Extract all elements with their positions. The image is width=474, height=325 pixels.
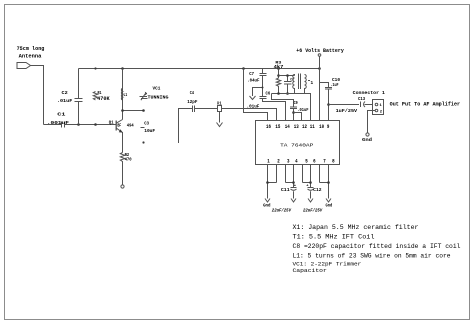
- svg-text:4: 4: [295, 159, 298, 165]
- svg-text:.01uF: .01uF: [297, 108, 308, 113]
- svg-text:6: 6: [313, 159, 316, 165]
- svg-text:C4: C4: [190, 90, 194, 96]
- svg-text:.01uF: .01uF: [247, 103, 260, 109]
- svg-text:C2: C2: [62, 90, 68, 96]
- svg-text:14: 14: [285, 124, 290, 130]
- svg-text:.01uF: .01uF: [57, 98, 73, 104]
- svg-text:C6: C6: [266, 91, 271, 96]
- svg-text:X1: X1: [217, 102, 222, 107]
- svg-text:L1: 5 turns of 23 SWG wire on: L1: 5 turns of 23 SWG wire on 5mm air co…: [293, 253, 451, 260]
- svg-text:C8 =220pF capacitor fitted ins: C8 =220pF capacitor fitted inside a IFT …: [293, 243, 461, 250]
- svg-text:C12: C12: [313, 188, 322, 193]
- svg-text:Antenna: Antenna: [19, 54, 42, 60]
- svg-text:16: 16: [266, 124, 271, 130]
- svg-text:Gnd: Gnd: [362, 137, 372, 143]
- svg-text:L1: L1: [124, 93, 128, 98]
- svg-text:C1: C1: [57, 112, 65, 118]
- svg-text:Capacitor: Capacitor: [293, 268, 327, 274]
- svg-text:13: 13: [294, 124, 299, 130]
- svg-text:C7: C7: [249, 72, 254, 77]
- svg-text:7: 7: [323, 159, 326, 165]
- svg-text:C11: C11: [281, 188, 290, 193]
- svg-text:+6 Volts Battery: +6 Volts Battery: [296, 48, 344, 54]
- svg-text:TUNNING: TUNNING: [148, 95, 169, 101]
- svg-text:.1uF: .1uF: [331, 83, 339, 88]
- svg-text:TA 7640AP: TA 7640AP: [280, 142, 313, 148]
- svg-text:10: 10: [319, 124, 324, 130]
- svg-text:470K: 470K: [97, 96, 110, 102]
- svg-text:.001uF: .001uF: [47, 120, 69, 126]
- svg-text:470: 470: [125, 157, 132, 162]
- svg-text:9: 9: [327, 124, 330, 130]
- svg-text:22uF/25V: 22uF/25V: [272, 208, 292, 213]
- svg-text:1uF/25V: 1uF/25V: [336, 109, 358, 114]
- svg-text:8: 8: [332, 159, 335, 165]
- svg-text:4k7: 4k7: [274, 65, 285, 70]
- svg-text:494: 494: [127, 124, 134, 129]
- svg-text:1: 1: [267, 159, 270, 165]
- svg-text:T1: 5.5 MHz IFT Coil: T1: 5.5 MHz IFT Coil: [293, 234, 375, 241]
- svg-text:.04uF: .04uF: [247, 78, 259, 84]
- svg-text:Gnd: Gnd: [263, 203, 271, 209]
- svg-text:1: 1: [311, 81, 314, 86]
- svg-text:12: 12: [302, 124, 307, 130]
- svg-text:C9: C9: [294, 101, 298, 106]
- svg-text:Out Put To AF Amplifier: Out Put To AF Amplifier: [390, 101, 460, 107]
- svg-text:Gnd: Gnd: [326, 203, 333, 209]
- svg-text:12pF: 12pF: [187, 99, 197, 105]
- svg-text:VC1: 2-22pF Trimmer: VC1: 2-22pF Trimmer: [293, 262, 362, 268]
- svg-text:VC1: VC1: [153, 85, 161, 91]
- svg-text:3: 3: [287, 159, 290, 165]
- svg-text:2: 2: [277, 159, 280, 165]
- svg-text:10uF: 10uF: [144, 128, 155, 134]
- svg-text:X1: Japan 5.5 MHz ceramic filt: X1: Japan 5.5 MHz ceramic filter: [293, 224, 419, 231]
- svg-text:C13: C13: [358, 96, 365, 102]
- svg-text:BF: BF: [117, 124, 121, 129]
- svg-text:15: 15: [275, 124, 280, 130]
- svg-text:11: 11: [310, 124, 315, 130]
- svg-text:Connector 1: Connector 1: [353, 90, 385, 96]
- svg-text:5: 5: [305, 159, 308, 165]
- svg-text:22uF/25V: 22uF/25V: [303, 208, 323, 213]
- svg-text:75cm long: 75cm long: [17, 46, 45, 52]
- svg-text:C3: C3: [144, 121, 149, 127]
- svg-text:Q1: Q1: [109, 121, 114, 126]
